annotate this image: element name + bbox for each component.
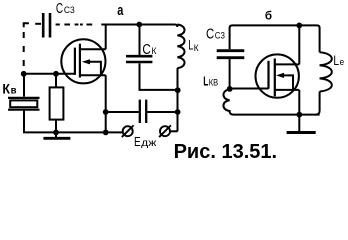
svg-text:L: L xyxy=(203,73,208,88)
capacitor Cc3 (circuit b) top plate xyxy=(217,49,245,52)
node: drain junction on rail b xyxy=(296,23,302,29)
transistor VT2 substrate tap with corner xyxy=(282,75,294,90)
node: resistor top junction xyxy=(53,71,59,77)
svg-text:К: К xyxy=(152,45,157,56)
svg-text:С3: С3 xyxy=(64,4,75,15)
quartz crystal Kv top plate xyxy=(8,97,40,99)
svg-text:дж: дж xyxy=(141,138,157,149)
wire: gate lead of VT1 to node xyxy=(24,73,75,75)
svg-text:б: б xyxy=(265,9,272,22)
capacitor Cc3 (circuit a) left plate xyxy=(42,13,45,38)
transistor VT1 substrate tap with corner to source xyxy=(88,62,101,75)
wire: tank right branch down to supply xyxy=(177,68,179,131)
svg-text:С: С xyxy=(206,26,214,43)
svg-text:Е: Е xyxy=(134,134,141,149)
wire: quartz bottom lead to ground rail xyxy=(23,110,25,133)
wire: Le bottom lead to rail corner xyxy=(316,92,320,115)
wire: right branch top segment done in rail; inductor Le (3 loops) xyxy=(320,52,332,91)
transistor VT1 channel bar xyxy=(79,44,81,78)
node: junction tank bottom xyxy=(175,87,181,93)
capacitor Cc3 (circuit b) bottom plate xyxy=(217,56,245,59)
terminal: supply terminal left (circle with slash) xyxy=(123,126,133,136)
wire: Cc3 bottom lead down to gate node xyxy=(229,59,231,89)
transistor VT2 circle (circuit b) xyxy=(256,54,299,97)
wire: top rail circuit b xyxy=(230,25,320,52)
wire: dashed lead into Cc3 xyxy=(35,23,41,25)
svg-text:Рис. 13.51.: Рис. 13.51. xyxy=(174,141,277,163)
transistor VT1 substrate arrow head xyxy=(82,59,90,64)
svg-text:С: С xyxy=(142,41,151,58)
node: source at bottom rail b xyxy=(296,112,302,118)
wire: bottom ground rail circuit a xyxy=(23,131,123,133)
svg-text:а: а xyxy=(117,2,123,19)
terminal: supply terminal right (circle with slash) xyxy=(160,126,170,136)
wire: dashed feedback corner top-left (circuit a) xyxy=(24,23,29,27)
transistor VT1 source tap xyxy=(80,74,106,76)
node: source wire at bottom rail xyxy=(103,130,109,136)
ground symbol circuit a xyxy=(55,132,57,137)
capacitor Cc3 (circuit a) right plate xyxy=(49,13,52,38)
capacitor Ck bottom plate xyxy=(126,61,152,64)
transistor VT2 source tap xyxy=(275,89,300,91)
wire: dashed from Cc3 to drain rail xyxy=(56,24,93,26)
wire: source lead down from VT1 xyxy=(105,75,107,132)
quartz crystal Kv bottom plate xyxy=(8,109,40,111)
ground symbol circuit b xyxy=(298,115,300,131)
svg-text:L: L xyxy=(333,52,339,68)
svg-text:С: С xyxy=(56,1,63,17)
wire: resistor bottom lead xyxy=(55,120,57,133)
node: gate node (dashed line + quartz junction) xyxy=(21,71,27,77)
wire: quartz top lead xyxy=(23,74,25,97)
wire: Ck bottom lead with corner to tank node xyxy=(140,63,178,90)
capacitor Ck top plate xyxy=(126,55,152,58)
wire: resistor top lead xyxy=(55,74,57,88)
wire: right terminal to right branch xyxy=(170,130,178,132)
svg-text:С3: С3 xyxy=(215,30,225,41)
wire: bypass capacitor left lead xyxy=(106,111,139,113)
node: gate node circuit b xyxy=(227,86,233,92)
transistor VT1 drain tap xyxy=(80,48,106,50)
wire: VT2 source lead down to rail xyxy=(298,90,300,115)
svg-text:е: е xyxy=(340,57,345,68)
capacitor blocking (bypass) left plate xyxy=(139,100,141,123)
svg-text:К: К xyxy=(2,81,10,97)
transistor VT2 substrate arrow head xyxy=(276,73,284,78)
transistor VT2 channel bar xyxy=(274,59,276,97)
node: Ck junction on top rail xyxy=(136,22,142,28)
wire: bottom rail circuit b xyxy=(233,114,320,116)
node: bypass cap right junction xyxy=(175,109,181,115)
node: resistor bottom / ground junction xyxy=(53,130,59,136)
wire: dashed vertical feedback x=23.7 xyxy=(23,32,25,66)
wire: bypass capacitor right lead xyxy=(147,111,177,113)
transistor VT2 drain tap xyxy=(275,63,300,65)
svg-text:КВ: КВ xyxy=(209,78,218,88)
svg-text:в: в xyxy=(11,85,17,96)
wire: VT2 drain lead up to rail xyxy=(298,25,300,64)
resistor R1 body xyxy=(50,87,64,119)
transistor VT1 circle (circuit a) xyxy=(61,39,105,83)
transistor VT1 gate bar xyxy=(74,48,76,75)
svg-text:К: К xyxy=(194,43,200,53)
node: bypass cap left junction xyxy=(103,109,109,115)
capacitor blocking (bypass) right plate xyxy=(145,100,147,123)
inductor Lk (4 loops) xyxy=(177,25,184,69)
quartz crystal Kv body xyxy=(10,100,37,107)
wire: Ck top lead from rail xyxy=(139,25,141,56)
transistor VT2 gate bar xyxy=(267,61,269,89)
wire: top rail of circuit a xyxy=(101,25,177,28)
wire: VT2 gate lead to node xyxy=(230,88,269,90)
wire: drain lead MOSFET VT1 xyxy=(105,25,107,50)
inductor Lkv (2 loops, bulge left) xyxy=(223,89,233,114)
